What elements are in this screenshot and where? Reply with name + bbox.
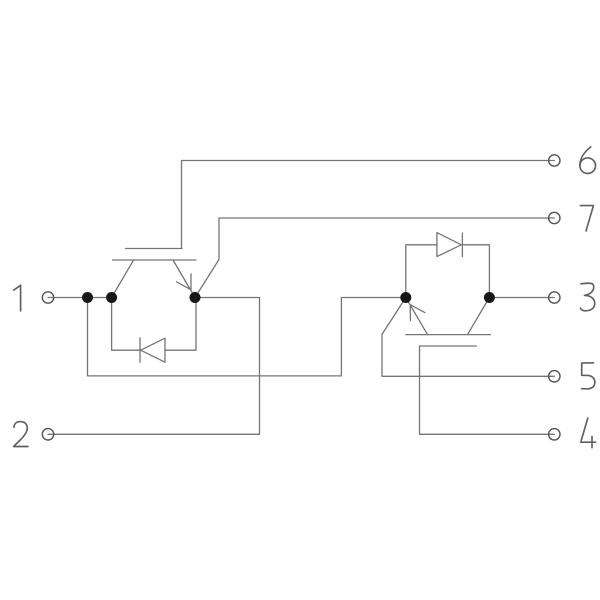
wire pin1 rail to node A/B <box>48 297 112 299</box>
pin label 4 <box>581 418 596 448</box>
terminal pin 4 <box>549 429 560 440</box>
IGBT Q1 (upper switch) <box>112 249 196 298</box>
pin label 5 <box>582 363 595 389</box>
junction node E <box>484 292 495 303</box>
IGBT Q2 (lower switch) <box>406 298 491 347</box>
wire node D to pin 5 (aux emitter Q2) <box>382 298 554 377</box>
diode D1 (antiparallel to Q1) <box>140 338 165 362</box>
wire pin 7 to node C (aux emitter Q1) <box>195 218 554 298</box>
junction node A <box>82 292 93 303</box>
terminal pin 7 <box>549 212 560 223</box>
pin label 6 <box>580 147 591 166</box>
terminal pin 2 <box>42 429 53 440</box>
wire diode D2 to node E <box>462 245 489 298</box>
terminal pin 6 <box>549 155 560 166</box>
wire gate Q2 to pin 4 <box>420 346 555 434</box>
junction node B <box>106 292 117 303</box>
wire node E to pin 3 <box>489 297 554 299</box>
junction node D <box>400 292 411 303</box>
pin label 7 <box>580 206 593 231</box>
diode D2 (antiparallel to Q2) <box>437 233 463 257</box>
pin label 3 <box>580 283 594 310</box>
wire diode D1 cathode loop to node C <box>165 298 196 351</box>
pin label 1 <box>14 285 21 311</box>
junction node C <box>190 292 201 303</box>
wire node C to pin 2 <box>48 298 260 435</box>
wire node D to diode D2 loop (left side) <box>406 245 437 298</box>
terminal pin 3 <box>549 292 560 303</box>
wire node A down-across to node D (module output link) <box>88 298 406 376</box>
terminal pin 5 <box>549 371 560 382</box>
wire gate Q1 to pin 6 <box>182 161 555 249</box>
pin label 2 <box>14 422 28 447</box>
wire node B to diode D1 anode loop (left side) <box>112 298 140 351</box>
terminal pin 1 <box>42 292 53 303</box>
